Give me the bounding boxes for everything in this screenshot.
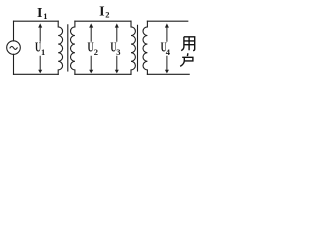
svg-text:I: I	[99, 5, 104, 20]
U2 up arrowhead	[89, 23, 93, 27]
svg-text:1: 1	[41, 47, 45, 57]
text 用 (user char 1)	[181, 37, 195, 51]
wire: right loop top	[147, 20, 187, 22]
transformer T1 primary winding	[58, 21, 62, 74]
text 户 (user char 2)	[180, 53, 193, 66]
voltage arrow U3 shaft	[116, 27, 118, 70]
wire: left rail lower segment	[13, 54, 15, 74]
wire: left loop bottom	[14, 73, 59, 75]
U1 down arrowhead	[38, 70, 42, 74]
svg-text:2: 2	[105, 10, 109, 20]
wire: left loop top	[14, 20, 59, 22]
wire: right loop bottom	[147, 73, 189, 75]
U3 up arrowhead	[115, 23, 119, 27]
U4 up arrowhead	[165, 23, 169, 27]
transformer T2 primary winding	[131, 21, 135, 74]
U2 down arrowhead	[89, 70, 93, 74]
wire: middle loop bottom	[75, 73, 131, 75]
transformer T1 secondary winding	[71, 21, 75, 74]
svg-text:4: 4	[166, 47, 171, 57]
svg-text:3: 3	[116, 47, 120, 57]
AC source G	[7, 41, 21, 55]
svg-text:1: 1	[43, 11, 47, 21]
voltage arrow U1 shaft	[39, 27, 41, 70]
svg-text:I: I	[37, 6, 42, 21]
U4 down arrowhead	[165, 70, 169, 74]
wire: middle loop top	[75, 20, 131, 22]
AC source tilde	[10, 46, 17, 49]
transformer T2 secondary winding	[143, 21, 147, 74]
voltage arrow U2 shaft	[90, 27, 92, 70]
voltage arrow U4 shaft	[166, 27, 168, 70]
svg-text:2: 2	[94, 47, 98, 57]
svg-text:U: U	[88, 41, 94, 55]
U1 up arrowhead	[38, 23, 42, 27]
wire: left rail upper segment	[13, 21, 15, 41]
transformer T1 core	[67, 25, 69, 71]
transformer T2 core	[137, 25, 139, 71]
U3 down arrowhead	[115, 70, 119, 74]
